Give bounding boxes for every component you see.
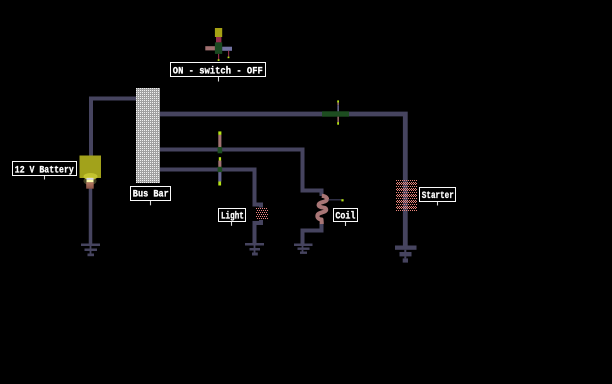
coil L2 bbox=[317, 196, 327, 224]
battery BT1 (12 V) body bbox=[80, 156, 102, 179]
wire: battery positive to bus bar bbox=[91, 99, 137, 159]
label: Coil bbox=[334, 209, 358, 227]
starter M1 bbox=[396, 181, 417, 211]
bus bar B1 bbox=[136, 88, 160, 183]
ground (light) bbox=[245, 243, 264, 256]
label: Light bbox=[219, 209, 246, 226]
label: Starter bbox=[420, 188, 456, 206]
svg-text:Bus Bar: Bus Bar bbox=[133, 190, 169, 201]
svg-text:Light: Light bbox=[221, 211, 244, 223]
wire: bus bar to starter via switch S2 bbox=[160, 114, 405, 246]
wire: battery negative to ground bbox=[89, 189, 93, 245]
label: ON - switch - OFF bbox=[171, 63, 266, 82]
label: 12 V Battery bbox=[13, 162, 77, 180]
connector J1 (crossing coil and light wires) bbox=[218, 131, 223, 185]
coil L2 terminal pin bbox=[329, 199, 342, 201]
wire: bus bar to light bbox=[160, 170, 261, 210]
wire: bus bar to coil bbox=[160, 150, 322, 197]
svg-text:Starter: Starter bbox=[422, 191, 454, 202]
label: Bus Bar bbox=[131, 187, 171, 206]
battery BT1 negative terminal bbox=[87, 178, 94, 180]
ground (battery) bbox=[81, 244, 100, 257]
svg-text:ON - switch - OFF: ON - switch - OFF bbox=[173, 65, 263, 77]
wire: light to ground bbox=[255, 220, 262, 244]
switch S1 (ON - switch - OFF) bbox=[205, 28, 232, 61]
svg-text:12 V Battery: 12 V Battery bbox=[15, 165, 74, 176]
ground (coil) bbox=[294, 244, 313, 254]
battery BT1 terminal glow bbox=[84, 173, 98, 180]
lamp L1 (Light) bbox=[256, 208, 269, 220]
ground (starter) bbox=[395, 246, 417, 263]
svg-text:Coil: Coil bbox=[335, 210, 355, 222]
switch S2 (inline connector on starter wire) bbox=[322, 100, 349, 124]
wire: coil to ground bbox=[303, 223, 322, 244]
